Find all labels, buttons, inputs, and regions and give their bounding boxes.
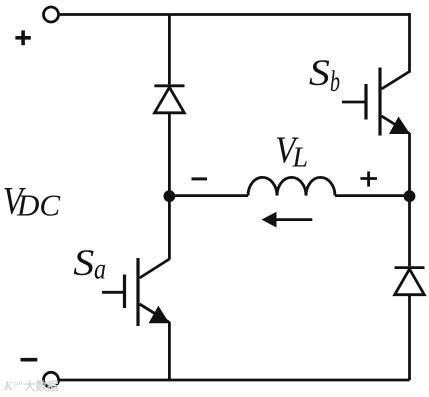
current arrow shaft (under inductor) bbox=[273, 218, 312, 221]
wire left bottom vertical bbox=[168, 322, 171, 380]
svg-text:大数据: 大数据 bbox=[24, 379, 59, 393]
wire top rail bbox=[59, 13, 410, 16]
diode D2 (right, cathode bar) bbox=[395, 266, 425, 269]
current arrow head bbox=[262, 212, 277, 228]
terminal top-left (+) bbox=[44, 7, 59, 22]
transistor Q2 Sb emitter diagonal bbox=[382, 116, 410, 134]
svg-text:S: S bbox=[309, 53, 330, 94]
svg-text:a: a bbox=[94, 252, 106, 285]
wire right bottom vertical bbox=[408, 295, 411, 380]
terminal bottom-left (-) bbox=[44, 372, 59, 387]
wire right top vertical bbox=[408, 13, 411, 73]
transistor Q2 Sb gate lead bbox=[342, 101, 366, 104]
wire right mid vertical (Sb emitter to node B) bbox=[408, 133, 411, 196]
diode D2 triangle bbox=[395, 269, 425, 295]
wire bottom rail bbox=[59, 379, 410, 382]
wire right vertical node B to diode D2 bbox=[408, 196, 411, 267]
node B (right junction dot) bbox=[404, 190, 416, 202]
label VL bbox=[275, 130, 308, 174]
diode D1 (left, cathode bar) bbox=[154, 84, 184, 87]
transistor Q1 Sa emitter arrow bbox=[149, 306, 170, 324]
svg-text:L: L bbox=[292, 143, 309, 174]
inductor L (V_L) bbox=[248, 177, 335, 195]
wire mid right segment bbox=[335, 194, 410, 197]
svg-text:DC: DC bbox=[16, 187, 60, 222]
watermark bottom-left bbox=[3, 378, 59, 393]
transistor Q1 Sa body bar bbox=[136, 258, 139, 326]
label Sb bbox=[309, 53, 340, 98]
label Sa bbox=[73, 243, 106, 285]
plus sign inductor right bbox=[360, 171, 377, 186]
wire mid left segment bbox=[169, 194, 248, 197]
minus sign bottom-left bbox=[21, 358, 38, 362]
label VDC bbox=[3, 179, 61, 222]
svg-text:K°º: K°º bbox=[3, 378, 23, 393]
transistor Q2 Sb gate bar bbox=[364, 84, 367, 120]
transistor Q2 Sb emitter arrow bbox=[389, 117, 410, 135]
transistor Q1 Sa emitter diagonal bbox=[140, 304, 170, 323]
plus sign top-left bbox=[15, 30, 30, 45]
svg-text:b: b bbox=[330, 65, 340, 98]
transistor Q1 Sa gate lead bbox=[102, 291, 125, 294]
wire left mid vertical bbox=[168, 113, 171, 260]
transistor Q2 Sb body bar bbox=[378, 68, 381, 136]
transistor Q2 Sb collector diagonal bbox=[382, 72, 410, 90]
transistor Q1 Sa collector diagonal bbox=[140, 259, 170, 278]
svg-text:S: S bbox=[73, 243, 94, 284]
transistor Q1 Sa gate bar bbox=[123, 275, 126, 309]
diode D1 triangle bbox=[155, 87, 185, 113]
wire left top vertical bbox=[168, 15, 171, 85]
node A (left junction dot) bbox=[164, 190, 176, 202]
minus sign inductor left bbox=[192, 177, 208, 180]
